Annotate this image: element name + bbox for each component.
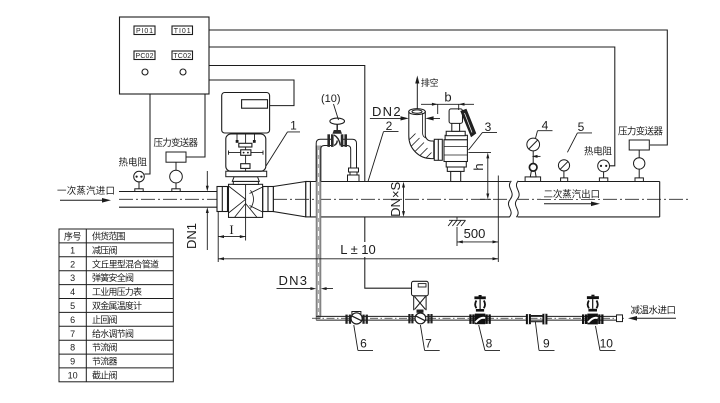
feed water line centerline: [312, 317, 624, 319]
svg-text:DN3: DN3: [279, 273, 308, 288]
svg-text:3: 3: [485, 120, 492, 134]
dimension L +/- 10: [218, 176, 498, 263]
svg-text:双金属温度计: 双金属温度计: [92, 300, 142, 311]
control cabinet: [120, 17, 210, 94]
main pipe centerline: [119, 198, 688, 200]
svg-text:节流器: 节流器: [92, 356, 118, 367]
valve 1 actuator: [222, 93, 270, 134]
label 4: [536, 118, 553, 138]
svg-text:1: 1: [70, 245, 75, 255]
dimension I: [218, 212, 245, 262]
svg-text:DN2: DN2: [372, 104, 401, 119]
vent arrow and label: [415, 76, 438, 110]
cone to pipe joint ring: [306, 182, 311, 217]
outlet flange pair of valve 1: [263, 187, 274, 212]
svg-text:一次蒸汽进口: 一次蒸汽进口: [57, 185, 115, 197]
valve 1 yoke / positioner: [226, 134, 266, 171]
svg-text:TI01: TI01: [174, 28, 191, 35]
dimension h: [469, 153, 492, 200]
supply scope table: [59, 229, 173, 382]
svg-text:I: I: [229, 222, 233, 237]
svg-text:DN×S: DN×S: [388, 181, 403, 216]
svg-text:供货范围: 供货范围: [92, 231, 126, 242]
dimension DN2: [370, 116, 440, 120]
label 2: [368, 119, 399, 182]
svg-text:热电阻: 热电阻: [119, 156, 148, 168]
svg-text:截止阀: 截止阀: [92, 370, 118, 381]
inlet steam pipe DN1: [119, 192, 217, 208]
inlet flange pair at valve 1: [217, 187, 228, 212]
outlet RTD: [598, 160, 610, 182]
svg-text:PI01: PI01: [136, 28, 153, 35]
main outlet pipe white fill: [306, 182, 660, 217]
outlet pressure transmitter: [629, 140, 649, 182]
vent elbow pipe: [409, 109, 434, 159]
water inlet flow arrow: [628, 316, 676, 321]
svg-text:给水调节阀: 给水调节阀: [92, 328, 134, 339]
svg-text:二次蒸汽出口: 二次蒸汽出口: [544, 189, 601, 201]
wire from cabinet bottom to inlet RTD: [145, 94, 151, 174]
svg-text:5: 5: [578, 120, 585, 134]
svg-text:4: 4: [542, 118, 549, 132]
svg-text:7: 7: [70, 329, 75, 339]
svg-text:弹簧安全阀: 弹簧安全阀: [92, 272, 134, 283]
wire from cabinet to outlet RTD: [209, 47, 615, 166]
svg-text:序号: 序号: [64, 231, 82, 242]
stop valve 10: [582, 295, 604, 325]
svg-text:止回阀: 止回阀: [92, 314, 118, 325]
svg-text:10: 10: [600, 337, 614, 351]
svg-text:减压阀: 减压阀: [92, 244, 118, 255]
label 1: [266, 118, 300, 166]
svg-text:10: 10: [68, 371, 78, 381]
svg-text:7: 7: [425, 337, 432, 351]
ground support symbol: [448, 217, 465, 226]
bypass loop pipe with valve (10): [316, 139, 356, 181]
svg-text:b: b: [444, 90, 451, 105]
svg-text:压力变送器: 压力变送器: [154, 137, 199, 149]
svg-text:节流阀: 节流阀: [92, 342, 118, 353]
reducing valve 1 body: [229, 184, 263, 217]
svg-text:8: 8: [486, 337, 493, 351]
svg-text:工业用压力表: 工业用压力表: [92, 286, 142, 297]
wire from cabinet bottom to inlet pressure transmitter: [186, 94, 205, 157]
svg-text:文丘里型混合管道: 文丘里型混合管道: [92, 258, 159, 269]
bypass nozzle on pipe: [348, 168, 360, 182]
label 5: [567, 120, 592, 152]
svg-text:1: 1: [290, 118, 297, 132]
svg-text:压力变送器: 压力变送器: [618, 126, 663, 138]
throttle device 9: [526, 314, 548, 325]
bimetal thermometer 5: [558, 160, 569, 182]
outlet pipe walls: [310, 182, 659, 217]
wire from cabinet to actuator of valve 1: [209, 80, 294, 106]
secondary steam outlet label: [541, 188, 602, 200]
venturi cone: [273, 182, 306, 217]
feed water line: [316, 316, 616, 320]
elbow shading: [410, 134, 432, 159]
label 6: [354, 325, 373, 351]
svg-text:6: 6: [360, 337, 367, 351]
label 9: [535, 322, 554, 351]
dimension DN3: [277, 287, 334, 290]
svg-text:热电阻: 热电阻: [584, 146, 612, 158]
dimension b: [421, 103, 474, 114]
svg-text:(10): (10): [321, 93, 341, 105]
inlet RTD: [134, 171, 145, 191]
svg-text:h: h: [471, 163, 486, 170]
label 7: [420, 325, 439, 351]
wire from cabinet to outlet pressure transmitter: [209, 30, 667, 145]
svg-text:PC02: PC02: [136, 53, 154, 60]
safety valve 3: [434, 109, 476, 182]
svg-text:TC02: TC02: [173, 53, 191, 60]
spray water pipe through venturi (grey): [316, 146, 321, 321]
pipe break symbol: [508, 180, 519, 217]
label 10: [596, 326, 616, 351]
wire from cabinet to feedwater control valve 7: [209, 66, 412, 289]
outlet flow arrow: [544, 202, 600, 207]
svg-text:L ± 10: L ± 10: [340, 242, 376, 257]
svg-text:5: 5: [70, 301, 75, 311]
feedwater control valve 7: [408, 281, 432, 324]
dimension DNxS: [402, 182, 405, 217]
inlet flow arrow: [60, 198, 111, 203]
svg-text:DN1: DN1: [184, 223, 199, 249]
svg-text:8: 8: [70, 343, 75, 353]
valve 1 bonnet: [226, 171, 267, 184]
svg-text:3: 3: [70, 273, 75, 283]
svg-text:排空: 排空: [421, 77, 439, 88]
svg-text:4: 4: [70, 287, 75, 297]
svg-text:2: 2: [386, 119, 393, 133]
svg-text:500: 500: [464, 226, 486, 241]
svg-text:2: 2: [70, 259, 75, 269]
label 8: [479, 325, 500, 351]
dimension DN1: [206, 171, 209, 250]
svg-text:9: 9: [543, 337, 550, 351]
dimension 500: [457, 227, 498, 246]
pipe end nipple: [617, 315, 623, 322]
svg-text:减温水进口: 减温水进口: [631, 305, 677, 317]
svg-text:9: 9: [70, 357, 75, 367]
throttle valve 8: [469, 295, 491, 324]
pressure gauge 4: [525, 138, 541, 181]
check valve 6: [345, 312, 368, 325]
inlet pressure transmitter: [166, 152, 186, 192]
stop valve (10) in bypass: [327, 118, 347, 148]
label 3: [469, 120, 498, 150]
label (10): [321, 93, 341, 120]
svg-text:6: 6: [70, 315, 75, 325]
